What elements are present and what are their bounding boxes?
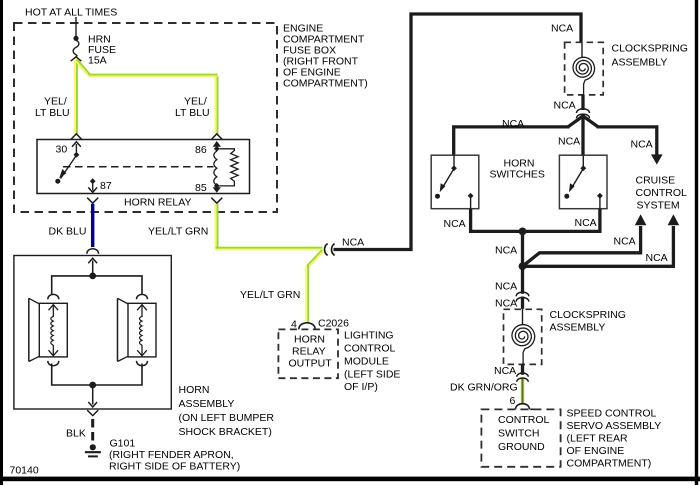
svg-text:70140: 70140 [10,465,39,477]
wire NCA: right branch to cruise control [597,127,657,155]
svg-text:6: 6 [510,395,516,407]
svg-text:LT BLU: LT BLU [175,107,210,119]
wire BLK to ground [91,419,94,443]
inline connector (below lower clockspring) [521,378,524,405]
svg-text:ASSEMBLY: ASSEMBLY [550,322,606,334]
wire: horn top bus [52,276,142,295]
relay actuation dashed link [63,166,214,168]
relay pin 87 terminal chevron [87,198,98,204]
svg-text:CRUISE: CRUISE [636,175,676,187]
wire: battery feed into fuse [75,17,77,37]
junction node (horn top) [89,273,96,280]
clockspring assembly (lower) dashed box [504,309,542,364]
svg-text:NCA: NCA [614,236,636,248]
svg-text:COMPARTMENT): COMPARTMENT) [567,458,652,470]
pin 6 connector dome [516,404,530,410]
horn assembly entry connector arc [87,249,99,254]
svg-text:NCA: NCA [494,365,516,377]
inline connector (green to NCA splice) [325,244,328,256]
svg-text:NCA: NCA [575,217,597,229]
wire NCA: junction Y below connector [581,115,584,157]
svg-text:OF ENGINE: OF ENGINE [567,445,625,457]
svg-text:NCA: NCA [495,245,517,257]
wire NCA: cruise branch B [523,226,674,266]
wire: horn bottom bus [52,364,142,386]
svg-text:85: 85 [195,182,207,194]
svg-text:NCA: NCA [444,218,466,230]
wire YEL/LT BLU: branch fuse to relay pin 86 [76,61,89,76]
svg-text:SWITCH: SWITCH [498,428,539,440]
horn assembly exit chevron [87,410,98,416]
svg-text:DK GRN/ORG: DK GRN/ORG [450,382,518,394]
svg-text:HORN: HORN [179,384,210,396]
svg-text:CLOCKSPRING: CLOCKSPRING [550,309,626,321]
svg-text:SHOCK BRACKET): SHOCK BRACKET) [179,426,272,438]
svg-text:NCA: NCA [554,100,576,112]
horn (right) [137,294,148,299]
relay pin 86 terminal chevron [211,134,222,140]
svg-text:GROUND: GROUND [498,441,545,453]
svg-text:RIGHT SIDE OF BATTERY): RIGHT SIDE OF BATTERY) [109,461,240,473]
svg-text:HORN RELAY: HORN RELAY [124,197,192,209]
junction node (horn bottom) [89,382,96,389]
svg-text:87: 87 [100,180,112,192]
svg-text:NCA: NCA [551,23,573,35]
svg-text:CONTROL: CONTROL [498,414,549,426]
inline connector (above lower clockspring) [516,292,529,296]
svg-text:YEL/: YEL/ [184,96,207,108]
wire NCA: switch 1 output [471,209,521,232]
svg-text:OUTPUT: OUTPUT [289,358,333,370]
wire NCA: cruise branch A [523,226,641,266]
svg-text:YEL/: YEL/ [44,96,67,108]
svg-text:ASSEMBLY: ASSEMBLY [612,57,668,69]
svg-text:CONTROL: CONTROL [344,343,395,355]
svg-text:NCA: NCA [502,118,524,130]
svg-text:30: 30 [56,144,68,156]
horn assembly exit arrow [92,385,94,405]
svg-text:SERVO ASSEMBLY: SERVO ASSEMBLY [567,420,662,432]
relay coil 86-85 [213,141,221,147]
svg-text:OF I/P): OF I/P) [344,381,378,393]
svg-text:G101: G101 [110,438,136,450]
svg-text:RELAY: RELAY [292,346,326,358]
svg-text:(ON LEFT BUMPER: (ON LEFT BUMPER [179,412,275,424]
relay switch contact 30-87 [75,144,77,153]
svg-text:NCA: NCA [495,298,517,310]
wire NCA: junction to junction [521,231,524,266]
clockspring assembly (upper) dashed box [565,42,604,95]
svg-text:NCA: NCA [495,281,517,293]
wire NCA: down to lower clockspring [521,266,524,294]
junction node (cruise tap) [519,262,527,270]
wire NCA thick: splice to top run [334,14,582,250]
svg-text:HOT AT ALL TIMES: HOT AT ALL TIMES [25,7,117,19]
horn assembly box [14,256,171,410]
svg-text:NCA: NCA [631,139,653,151]
svg-text:COMPARTMENT): COMPARTMENT) [283,78,368,90]
svg-text:LIGHTING: LIGHTING [344,330,394,342]
svg-text:CLOCKSPRING: CLOCKSPRING [612,43,688,55]
svg-text:(LEFT SIDE: (LEFT SIDE [344,369,400,381]
svg-text:NCA: NCA [646,252,668,264]
svg-text:YEL/LT GRN: YEL/LT GRN [148,226,208,238]
svg-text:MODULE: MODULE [344,356,389,368]
relay pin 30 terminal chevron [71,134,82,140]
horn switch 1 [431,155,479,209]
wire YEL/LT BLU: fuse to relay pin 30 [74,60,76,136]
svg-text:SPEED CONTROL: SPEED CONTROL [567,408,657,420]
svg-text:86: 86 [195,144,207,156]
wire NCA: left branch to horn switch 1 [454,127,570,156]
fuse HRN FUSE 15A [73,36,78,41]
svg-text:YEL/LT GRN: YEL/LT GRN [240,289,300,301]
relay pin 87 arrow [90,178,96,184]
control switch ground box (dashed) [481,409,560,466]
relay pin 85 terminal chevron [211,198,222,204]
clockspring coil (upper spiral) [581,43,583,58]
horn relay box [37,140,250,194]
horn switch 2 [559,155,607,209]
svg-text:15A: 15A [88,55,107,67]
inline connector (below upper clockspring) [577,109,590,113]
svg-text:NCA: NCA [342,237,364,249]
ground G101 [90,444,96,450]
wire YEL/LT GRN: splice to lighting control module [307,250,322,266]
svg-text:C2026: C2026 [318,318,349,330]
svg-text:NCA: NCA [558,136,580,148]
svg-text:BLK: BLK [66,428,86,440]
clockspring coil (lower spiral) [522,308,524,324]
pin 4 connector dome C2026 [299,323,315,330]
svg-text:LT BLU: LT BLU [35,107,70,119]
svg-text:(LEFT REAR: (LEFT REAR [567,433,628,445]
junction node (switch outputs) [519,228,527,236]
svg-text:SWITCHES: SWITCHES [490,169,545,181]
svg-text:(RIGHT FENDER APRON,: (RIGHT FENDER APRON, [109,449,234,461]
lighting control module box (dashed) HORN RELAY OUTPUT [278,329,338,378]
horn assembly entry arrow [92,261,94,276]
svg-text:CONTROL: CONTROL [636,187,687,199]
fuse box boundary (engine compartment fuse box, dashed) [14,23,277,212]
svg-text:DK BLU: DK BLU [49,226,87,238]
wire NCA: switch 2 output [524,209,600,232]
svg-text:SYSTEM: SYSTEM [637,200,680,212]
wire DK BLU: relay 87 to horn assembly [91,204,94,247]
wire YEL/LT GRN: relay 85 down and right [215,204,217,250]
svg-text:ASSEMBLY: ASSEMBLY [179,398,235,410]
horn (left) [48,294,59,299]
svg-text:HORN: HORN [294,334,325,346]
